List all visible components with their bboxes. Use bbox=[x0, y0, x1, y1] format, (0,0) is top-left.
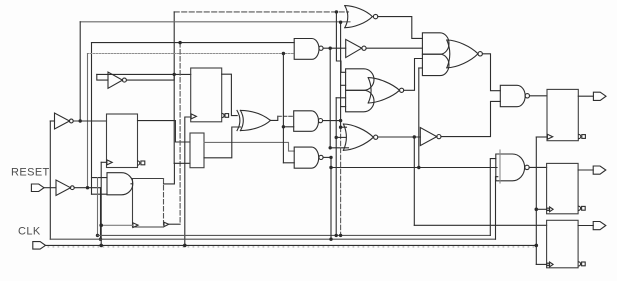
flip-flop FF4 bbox=[547, 89, 578, 140]
CLK input port bbox=[33, 242, 46, 250]
NAND gate C bbox=[294, 147, 318, 168]
flip-flop FF1 bbox=[107, 114, 138, 168]
wire NAND C input2 bbox=[283, 162, 294, 164]
wire vertical x50.3 I1 input down to bus B bbox=[49, 121, 51, 239]
wire FF5 clock bbox=[536, 208, 546, 210]
node NOR1 out branch down x414.3 bbox=[413, 135, 416, 138]
wire bus B y239.2 bbox=[50, 238, 495, 240]
clock pin marker FF6 bubble and triangle bbox=[547, 263, 550, 266]
wire CLK vertical x101 up to FF1 clock bbox=[100, 162, 102, 245]
wire I1 input from bus B vertical bbox=[50, 120, 54, 122]
wire AOI2 AND2 in2 from long rail bbox=[419, 67, 423, 69]
wire into small box input2 bbox=[174, 162, 190, 164]
wire NOR2 output to AOI2 AND1 in1 bbox=[378, 17, 423, 39]
clock pin triangle FF3 bbox=[133, 223, 138, 228]
wire vertical x340.6 from rail22 down to NOR1 in1 bbox=[340, 22, 342, 127]
complex gate AOI2 (2x2 AND-OR-invert) bbox=[422, 33, 449, 54]
wire NOR1 output to inverter U5 bbox=[378, 136, 421, 138]
wire FF2 D input bbox=[174, 73, 191, 75]
node long rail junction x418.8 bbox=[417, 166, 420, 169]
wire G1 input1 from x91.5 vertical bbox=[92, 177, 108, 179]
output port OUT2 bbox=[593, 166, 606, 174]
wire RESET port to inverter I3 bbox=[44, 187, 56, 189]
inverter I2 bbox=[108, 72, 123, 88]
node resetbar vertical joins bus B bbox=[99, 238, 102, 241]
wire NAND B output to vertical x340.6 bbox=[323, 120, 341, 122]
NOR gate NOR2 top bbox=[345, 6, 348, 28]
node NAND A out branch x330 bbox=[329, 47, 332, 50]
wire CLK line bbox=[46, 244, 537, 246]
wire I2 input branch from FF2D node bbox=[97, 73, 174, 75]
inverter I3 bbox=[56, 180, 71, 196]
clock pin triangle FF4 bbox=[547, 134, 552, 139]
wire FF3 Q output step to small box input2 bbox=[164, 163, 175, 184]
node dashed vertical bus A bbox=[339, 234, 342, 237]
wire FF4 Q to output port bbox=[578, 95, 593, 97]
wire gray stub vertical x500 bbox=[499, 150, 501, 183]
wire vertical x336.2 down through NOR1 in2 to bus A bbox=[335, 98, 337, 236]
node junction I1out-rail22 bbox=[79, 119, 82, 122]
node clock bus CLK join bbox=[535, 244, 539, 248]
node rail22 to NOR2 in2 bbox=[339, 21, 342, 24]
wire resetbar vertical x100.5 to bus B bbox=[100, 188, 102, 240]
wire vertical x283 down to NAND B and NAND C inputs bbox=[282, 54, 284, 163]
wire NAND A output to inverter U3 bbox=[323, 47, 346, 49]
node CLK branch FF3 clock bbox=[99, 224, 103, 228]
node x331 long rail y167.5 bbox=[329, 166, 332, 169]
wire vertical x87.5 gray to RESET inverter output bbox=[87, 54, 89, 188]
svg-text:RESET: RESET bbox=[11, 167, 50, 179]
output port OUT3 bbox=[593, 222, 606, 230]
wire B1 output2 to XOR input2 bbox=[204, 127, 241, 158]
wire G1 output to FF3 D bbox=[131, 183, 133, 185]
wire NAND3 output to FF4 D bbox=[530, 95, 548, 97]
wire AOI1 output to AOI2 AND2 in1 bbox=[404, 59, 423, 91]
qbar pin triangle FF3 outside right edge bbox=[164, 222, 169, 226]
wire B1 output1 rail y142.4 to NAND C input1 bbox=[204, 142, 294, 151]
wire FF2 Q output to XOR input1 bbox=[222, 74, 238, 115]
NAND gate NAND2 bbox=[496, 154, 525, 181]
node NOR1 in2 junction bbox=[335, 136, 338, 139]
node CLK to FF1 clock vertical bbox=[99, 244, 103, 248]
wire NOR1 input3 bbox=[330, 147, 348, 149]
wire vertical x331 NAND C out down to bus B bbox=[330, 157, 332, 239]
wire U5 output up to NAND3 in2 bbox=[441, 101, 500, 136]
node junction resetbar rail53 bbox=[86, 186, 89, 189]
wire gray vertical x97.5 to bus A bbox=[97, 178, 99, 236]
wire AOI1 AND2 in1 bbox=[336, 97, 345, 99]
xor gate X1 bbox=[237, 110, 240, 130]
wire NAND2 output to FF5 D bbox=[529, 166, 546, 168]
wire vertical x80 rail22 to inverter I1 output bbox=[79, 22, 81, 121]
flip-flop FF3 bbox=[133, 179, 164, 228]
wire vertical from dashed rail to FF2 D / small box bbox=[173, 12, 175, 163]
wire CLK line tick dots bbox=[48, 246, 534, 248]
wire AOI1 AND2 in2 bbox=[341, 106, 346, 108]
qbar pin marker FF2 bbox=[222, 113, 224, 117]
wire dashed top rail net N11 bbox=[174, 11, 348, 13]
wire dashed into NAND B input1 bbox=[278, 115, 294, 117]
inverter U3 bbox=[346, 39, 362, 57]
NAND gate A bbox=[294, 39, 319, 60]
node x336.2 bus A bbox=[335, 234, 338, 237]
node gray vertical joins bus A bbox=[96, 234, 99, 237]
qbar pin marker FF4 bbox=[579, 134, 581, 138]
wire NAND B input2 bbox=[283, 126, 293, 128]
node x331 bus B bbox=[329, 238, 332, 241]
wire vertical x330 NAND A out down to NOR1 input3 bbox=[329, 48, 331, 148]
wire FF2 clock down to CLK line bbox=[185, 117, 191, 245]
wire vertical x414.3 down to FF6 D rail bbox=[413, 137, 415, 225]
wire NOR1 in2 bbox=[336, 136, 346, 138]
wire NAND C output to vertical x331 bbox=[323, 156, 331, 158]
wire FF4 clock bbox=[536, 136, 547, 138]
wire FF1 Q output to small box input1 bbox=[138, 121, 191, 142]
inverter U5 bbox=[420, 128, 437, 146]
inverter I1 bbox=[55, 113, 70, 129]
wire FF3 clock gray from CLK vertical bbox=[101, 224, 132, 226]
node dashed rail to NOR2 in1 bbox=[335, 10, 338, 13]
output port OUT1 bbox=[593, 92, 606, 100]
complex gate AOI1 (2x2 AND-OR-invert) bbox=[346, 69, 374, 91]
wire vertical x336.5 from rail11 to AOI1 AND1 in1 jog bbox=[336, 12, 345, 72]
clock pin marker FF5 bubble and triangle bbox=[547, 208, 550, 211]
wire AOI1 AND1 in2 bbox=[341, 84, 346, 86]
wire dashed vertical x340.6 down to bus A bbox=[340, 127, 342, 235]
RESET input port bbox=[31, 184, 44, 192]
wire FF1 clock from CLK vertical bbox=[101, 161, 106, 163]
wire I2 output to vertical x174 bbox=[126, 74, 174, 80]
flip-flop FF5 bbox=[547, 163, 579, 213]
NAND gate NAND3 bbox=[500, 85, 525, 106]
wire vertical x91.5 down to AND gate inputs bbox=[91, 43, 93, 195]
clock pin triangle FF2 bbox=[191, 114, 196, 119]
wire NAND2 in3 from bus B bbox=[496, 177, 498, 240]
wire rail y42.7 to NAND A input1 bbox=[92, 42, 295, 44]
flip-flop FF6 bbox=[547, 220, 579, 267]
wire vertical x418.8 bbox=[418, 68, 420, 168]
node at y147.8 bbox=[329, 146, 332, 149]
wire AOI2 output to NAND3 in1 bbox=[482, 54, 500, 91]
wire FF3 qbar to dashed vertical bbox=[169, 223, 180, 225]
wire I3 output to descend x100.5 bbox=[74, 187, 100, 189]
node NAND B out joins x340.6 bbox=[339, 119, 342, 122]
wire X1 output jog to dashed input of NAND B bbox=[271, 116, 278, 120]
svg-text:CLK: CLK bbox=[18, 226, 41, 238]
wire U3 output to AOI2 AND1 in2 bbox=[366, 47, 422, 49]
wire bus A gray y235.4 bbox=[98, 234, 491, 236]
wire NAND2 in1 from bus A bbox=[490, 159, 496, 236]
wire FF5 Q to output port bbox=[578, 169, 593, 171]
wire gray dotted rail y53.6 to NAND A input2 bbox=[88, 53, 295, 55]
qbar pin marker FF5 bbox=[579, 206, 581, 210]
AND gate G1 (reset gating) bbox=[107, 173, 133, 195]
node NOR1 in1 junction bbox=[339, 126, 342, 129]
wire I1 output to FF1 D bbox=[73, 120, 106, 122]
node CLK to FF2 clock vertical bbox=[183, 244, 187, 248]
node junction at x174 y74 bbox=[173, 73, 176, 76]
NOR gate NOR1 bbox=[343, 124, 346, 150]
flip-flop FF2 bbox=[191, 68, 222, 122]
wire top rail y22 from x80 bbox=[80, 21, 350, 23]
wire NOR1 in1 bbox=[341, 126, 347, 128]
wire I2 input jog from x96.8 bbox=[97, 74, 108, 80]
qbar pin marker FF1 bbox=[138, 161, 140, 165]
wire G1 input2 from x91.5 vertical bbox=[92, 193, 108, 195]
wire vertical clock bus x536.3 bbox=[535, 137, 537, 264]
NAND gate B bbox=[294, 111, 319, 132]
wire long rail y167.5 to NAND2 middle input bbox=[331, 167, 497, 169]
node NAND C out bbox=[329, 156, 332, 159]
node NAND A input2 junction x283 bbox=[282, 52, 285, 55]
wire FF6 Q to output port bbox=[578, 225, 593, 227]
qbar pin marker FF6 bbox=[579, 262, 581, 266]
node clock bus FF5 branch bbox=[535, 208, 539, 212]
buffer box B1 (small box) bbox=[190, 133, 204, 168]
wire dashed vertical x180 from rail42 to FF3 qbar bbox=[179, 43, 181, 225]
wire FF6 D rail y225.3 bbox=[414, 224, 546, 226]
node NAND B input2 junction bbox=[282, 125, 285, 128]
wire FF6 clock bbox=[536, 263, 546, 265]
node junction rail42 dashed vertical bbox=[178, 41, 181, 44]
clock pin triangle FF1 bbox=[107, 160, 112, 165]
